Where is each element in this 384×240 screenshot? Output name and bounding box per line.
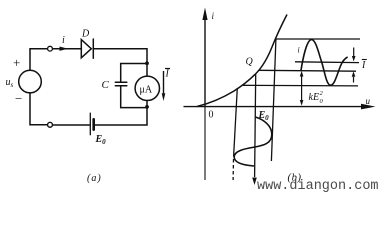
svg-text:kE: kE xyxy=(309,92,320,103)
svg-text:us: us xyxy=(6,77,14,89)
svg-text:2: 2 xyxy=(320,90,324,97)
svg-text:E0: E0 xyxy=(258,110,270,122)
svg-text:i: i xyxy=(62,35,65,46)
svg-text:www.diangon.com: www.diangon.com xyxy=(257,179,379,194)
svg-text:D: D xyxy=(81,29,90,40)
svg-text:Q: Q xyxy=(246,57,254,68)
svg-text:−: − xyxy=(15,91,22,106)
svg-text:i: i xyxy=(212,11,215,21)
svg-text:I: I xyxy=(165,69,170,80)
svg-text:μA: μA xyxy=(140,85,153,96)
svg-text:u: u xyxy=(366,96,371,106)
svg-text:0: 0 xyxy=(209,110,214,121)
svg-text:E0: E0 xyxy=(95,134,107,146)
svg-text:0: 0 xyxy=(320,98,324,105)
svg-text:i: i xyxy=(298,46,300,55)
svg-text:I: I xyxy=(361,60,366,71)
svg-text:+: + xyxy=(13,55,20,70)
svg-text:(a): (a) xyxy=(87,173,102,184)
svg-text:C: C xyxy=(102,79,110,91)
